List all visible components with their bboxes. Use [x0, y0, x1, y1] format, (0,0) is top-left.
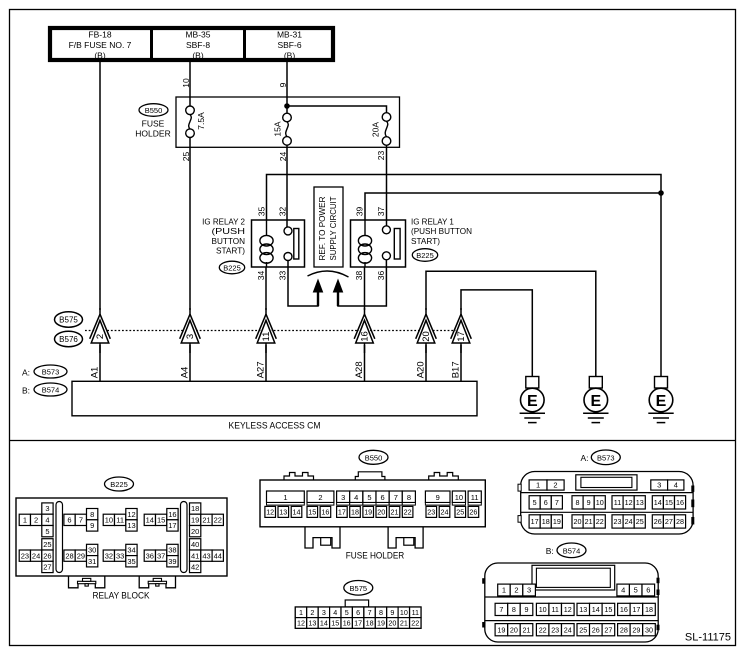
- svg-text:10: 10: [105, 516, 113, 525]
- svg-text:25: 25: [579, 625, 587, 634]
- svg-text:14: 14: [654, 498, 662, 507]
- svg-text:3: 3: [322, 608, 326, 617]
- svg-text:32: 32: [278, 207, 288, 217]
- svg-text:A27: A27: [255, 361, 266, 378]
- svg-text:4: 4: [674, 481, 678, 490]
- svg-text:21: 21: [202, 516, 210, 525]
- svg-text:24: 24: [441, 508, 449, 517]
- svg-text:8: 8: [379, 608, 383, 617]
- svg-text:43: 43: [202, 551, 210, 560]
- svg-text:REF. TO POWER: REF. TO POWER: [317, 197, 327, 261]
- svg-text:2: 2: [553, 481, 557, 490]
- svg-text:1: 1: [23, 516, 27, 525]
- svg-text:8: 8: [512, 605, 516, 614]
- svg-text:16: 16: [676, 498, 684, 507]
- svg-text:42: 42: [191, 563, 199, 572]
- svg-text:41: 41: [191, 551, 199, 560]
- svg-text:4: 4: [621, 586, 625, 595]
- svg-text:7: 7: [79, 516, 83, 525]
- svg-text:2: 2: [310, 608, 314, 617]
- svg-text:27: 27: [604, 625, 612, 634]
- svg-text:MB-35: MB-35: [185, 30, 210, 40]
- svg-text:B574: B574: [563, 546, 581, 555]
- svg-text:9: 9: [525, 605, 529, 614]
- svg-text:18: 18: [351, 508, 359, 517]
- svg-text:6: 6: [67, 516, 71, 525]
- svg-text:14: 14: [293, 508, 301, 517]
- svg-text:26: 26: [469, 508, 477, 517]
- svg-text:12: 12: [127, 510, 135, 519]
- svg-text:4: 4: [354, 493, 358, 502]
- svg-text:A:: A:: [581, 453, 589, 463]
- svg-text:17: 17: [456, 331, 467, 342]
- svg-text:10: 10: [539, 605, 547, 614]
- svg-text:22: 22: [596, 517, 604, 526]
- svg-text:18: 18: [542, 517, 550, 526]
- svg-text:4: 4: [45, 516, 49, 525]
- svg-text:13: 13: [279, 508, 287, 517]
- svg-text:6: 6: [646, 586, 650, 595]
- svg-text:13: 13: [308, 619, 316, 628]
- svg-text:1: 1: [536, 481, 540, 490]
- svg-text:10: 10: [181, 78, 191, 88]
- svg-text:17: 17: [531, 517, 539, 526]
- svg-text:MB-31: MB-31: [277, 30, 302, 40]
- svg-text:21: 21: [523, 625, 531, 634]
- svg-text:28: 28: [676, 517, 684, 526]
- svg-text:30: 30: [88, 546, 96, 555]
- svg-text:FB-18: FB-18: [88, 30, 111, 40]
- svg-text:KEYLESS ACCESS CM: KEYLESS ACCESS CM: [229, 421, 321, 431]
- svg-text:26: 26: [43, 551, 51, 560]
- svg-text:15: 15: [308, 508, 316, 517]
- svg-text:(B): (B): [192, 50, 204, 60]
- svg-text:9: 9: [587, 498, 591, 507]
- svg-text:39: 39: [355, 207, 365, 217]
- svg-text:7: 7: [499, 605, 503, 614]
- svg-text:B573: B573: [597, 453, 615, 462]
- svg-text:(PUSH BUTTON: (PUSH BUTTON: [411, 227, 472, 236]
- svg-text:3: 3: [657, 481, 661, 490]
- svg-text:B575: B575: [350, 584, 368, 593]
- svg-text:27: 27: [43, 563, 51, 572]
- svg-text:20: 20: [191, 527, 199, 536]
- svg-text:5: 5: [45, 527, 49, 536]
- svg-text:16: 16: [168, 510, 176, 519]
- svg-text:B17: B17: [450, 361, 461, 378]
- svg-text:16: 16: [321, 508, 329, 517]
- svg-text:21: 21: [391, 508, 399, 517]
- svg-text:IG RELAY 1: IG RELAY 1: [411, 218, 454, 227]
- svg-text:A1: A1: [89, 367, 100, 379]
- svg-text:3: 3: [45, 504, 49, 513]
- svg-text:14: 14: [592, 605, 600, 614]
- svg-text:10: 10: [400, 608, 408, 617]
- svg-text:7: 7: [368, 608, 372, 617]
- svg-text:12: 12: [564, 605, 572, 614]
- svg-text:IG RELAY 2: IG RELAY 2: [202, 218, 245, 227]
- svg-text:B225: B225: [223, 264, 241, 273]
- svg-text:SBF-6: SBF-6: [277, 40, 301, 50]
- svg-text:16: 16: [360, 331, 371, 342]
- svg-text:22: 22: [539, 625, 547, 634]
- svg-text:START): START): [411, 237, 440, 246]
- svg-text:37: 37: [157, 551, 165, 560]
- svg-text:38: 38: [354, 271, 364, 281]
- svg-text:E: E: [590, 393, 601, 410]
- svg-text:18: 18: [645, 605, 653, 614]
- svg-text:23: 23: [376, 151, 386, 161]
- svg-text:20: 20: [388, 619, 396, 628]
- svg-text:16: 16: [620, 605, 628, 614]
- svg-text:2: 2: [514, 586, 518, 595]
- svg-text:5: 5: [367, 493, 371, 502]
- svg-text:33: 33: [116, 551, 124, 560]
- svg-text:E: E: [527, 393, 538, 410]
- svg-text:18: 18: [366, 619, 374, 628]
- svg-text:B575: B575: [59, 316, 78, 325]
- svg-text:19: 19: [364, 508, 372, 517]
- svg-text:16: 16: [343, 619, 351, 628]
- svg-text:11: 11: [471, 493, 479, 502]
- svg-text:39: 39: [168, 557, 176, 566]
- svg-text:9: 9: [390, 608, 394, 617]
- svg-text:24: 24: [564, 625, 572, 634]
- svg-text:24: 24: [278, 152, 288, 162]
- svg-text:SBF-8: SBF-8: [186, 40, 210, 50]
- svg-text:44: 44: [214, 551, 222, 560]
- svg-text:A:: A:: [22, 368, 30, 378]
- svg-text:37: 37: [376, 207, 386, 217]
- svg-text:20: 20: [377, 508, 385, 517]
- svg-text:30: 30: [645, 625, 653, 634]
- svg-text:25: 25: [43, 540, 51, 549]
- svg-text:34: 34: [256, 271, 266, 281]
- svg-text:20: 20: [574, 517, 582, 526]
- svg-text:5: 5: [533, 498, 537, 507]
- svg-text:3: 3: [527, 586, 531, 595]
- svg-text:19: 19: [191, 516, 199, 525]
- svg-text:10: 10: [455, 493, 463, 502]
- svg-text:38: 38: [168, 546, 176, 555]
- svg-text:19: 19: [377, 619, 385, 628]
- svg-text:7.5A: 7.5A: [196, 112, 206, 130]
- svg-text:15A: 15A: [273, 121, 283, 136]
- svg-text:24: 24: [625, 517, 633, 526]
- svg-text:21: 21: [585, 517, 593, 526]
- svg-text:17: 17: [168, 521, 176, 530]
- svg-text:B550: B550: [365, 453, 383, 462]
- svg-text:15: 15: [331, 619, 339, 628]
- svg-text:23: 23: [614, 517, 622, 526]
- svg-text:11: 11: [614, 498, 621, 507]
- svg-text:23: 23: [21, 551, 29, 560]
- svg-text:8: 8: [407, 493, 411, 502]
- svg-text:2: 2: [34, 516, 38, 525]
- svg-text:25: 25: [456, 508, 464, 517]
- svg-text:11: 11: [412, 608, 419, 617]
- svg-text:(B): (B): [284, 50, 296, 60]
- svg-text:14: 14: [146, 516, 154, 525]
- svg-text:B225: B225: [416, 251, 434, 260]
- svg-text:35: 35: [257, 207, 267, 217]
- svg-text:17: 17: [354, 619, 362, 628]
- svg-text:5: 5: [345, 608, 349, 617]
- svg-text:18: 18: [191, 504, 199, 513]
- svg-text:START): START): [216, 247, 245, 256]
- svg-text:17: 17: [338, 508, 346, 517]
- svg-text:F/B FUSE NO. 7: F/B FUSE NO. 7: [69, 40, 132, 50]
- svg-text:26: 26: [654, 517, 662, 526]
- svg-text:22: 22: [411, 619, 419, 628]
- svg-text:29: 29: [77, 551, 85, 560]
- svg-text:36: 36: [146, 551, 154, 560]
- svg-text:33: 33: [278, 271, 288, 281]
- svg-text:24: 24: [32, 551, 40, 560]
- svg-text:23: 23: [551, 625, 559, 634]
- svg-text:11: 11: [551, 605, 558, 614]
- svg-text:HOLDER: HOLDER: [135, 129, 170, 139]
- svg-text:12: 12: [266, 508, 274, 517]
- svg-text:23: 23: [427, 508, 435, 517]
- svg-text:11: 11: [116, 516, 124, 525]
- svg-text:SUPPLY CIRCUIT: SUPPLY CIRCUIT: [328, 197, 338, 261]
- svg-text:FUSE HOLDER: FUSE HOLDER: [346, 551, 405, 561]
- svg-text:34: 34: [127, 546, 135, 555]
- svg-text:13: 13: [579, 605, 587, 614]
- svg-text:A28: A28: [354, 361, 365, 378]
- svg-text:10: 10: [596, 498, 604, 507]
- svg-text:15: 15: [665, 498, 673, 507]
- svg-text:B:: B:: [546, 546, 554, 556]
- svg-text:B574: B574: [42, 386, 60, 395]
- svg-text:36: 36: [376, 271, 386, 281]
- svg-text:28: 28: [620, 625, 628, 634]
- svg-text:29: 29: [632, 625, 640, 634]
- svg-text:B573: B573: [42, 368, 60, 377]
- svg-text:1: 1: [502, 586, 506, 595]
- svg-text:26: 26: [592, 625, 600, 634]
- svg-text:9: 9: [278, 82, 288, 87]
- svg-text:E: E: [656, 393, 667, 410]
- svg-text:12: 12: [297, 619, 305, 628]
- svg-text:25: 25: [181, 152, 191, 162]
- svg-text:9: 9: [436, 493, 440, 502]
- svg-text:6: 6: [356, 608, 360, 617]
- svg-text:(B): (B): [94, 50, 106, 60]
- svg-text:FUSE: FUSE: [142, 118, 165, 128]
- svg-text:12: 12: [625, 498, 633, 507]
- svg-text:A4: A4: [179, 367, 190, 379]
- svg-text:31: 31: [88, 557, 96, 566]
- svg-text:15: 15: [604, 605, 612, 614]
- svg-text:9: 9: [90, 521, 94, 530]
- svg-text:1: 1: [283, 493, 287, 502]
- svg-text:19: 19: [497, 625, 505, 634]
- svg-text:B576: B576: [59, 335, 78, 344]
- svg-text:28: 28: [65, 551, 73, 560]
- svg-text:35: 35: [127, 557, 135, 566]
- svg-text:14: 14: [320, 619, 328, 628]
- svg-text:B550: B550: [145, 106, 163, 115]
- svg-text:22: 22: [404, 508, 412, 517]
- svg-text:8: 8: [90, 510, 94, 519]
- svg-text:A20: A20: [415, 361, 426, 378]
- svg-text:21: 21: [400, 619, 408, 628]
- svg-text:RELAY BLOCK: RELAY BLOCK: [93, 591, 150, 601]
- svg-text:3: 3: [341, 493, 345, 502]
- svg-text:25: 25: [636, 517, 644, 526]
- svg-text:22: 22: [214, 516, 222, 525]
- svg-text:B225: B225: [110, 480, 128, 489]
- svg-text:7: 7: [555, 498, 559, 507]
- svg-text:27: 27: [665, 517, 673, 526]
- svg-text:6: 6: [544, 498, 548, 507]
- svg-text:BUTTON: BUTTON: [212, 237, 246, 246]
- svg-text:3: 3: [185, 334, 196, 339]
- svg-text:B:: B:: [22, 386, 30, 396]
- svg-text:8: 8: [576, 498, 580, 507]
- svg-text:5: 5: [634, 586, 638, 595]
- svg-text:6: 6: [381, 493, 385, 502]
- svg-text:13: 13: [127, 521, 135, 530]
- svg-text:17: 17: [632, 605, 640, 614]
- svg-text:15: 15: [157, 516, 165, 525]
- svg-text:2: 2: [95, 334, 106, 339]
- svg-text:2: 2: [318, 493, 322, 502]
- svg-text:40: 40: [191, 540, 199, 549]
- svg-text:20A: 20A: [371, 122, 381, 137]
- svg-text:13: 13: [636, 498, 644, 507]
- svg-text:20: 20: [510, 625, 518, 634]
- svg-text:(PUSH: (PUSH: [212, 227, 246, 236]
- svg-text:SL-11175: SL-11175: [685, 632, 731, 644]
- svg-text:32: 32: [105, 551, 113, 560]
- svg-text:20: 20: [421, 331, 432, 342]
- svg-text:4: 4: [333, 608, 337, 617]
- svg-text:7: 7: [394, 493, 398, 502]
- svg-text:11: 11: [261, 332, 272, 342]
- svg-text:19: 19: [553, 517, 561, 526]
- svg-text:1: 1: [299, 608, 303, 617]
